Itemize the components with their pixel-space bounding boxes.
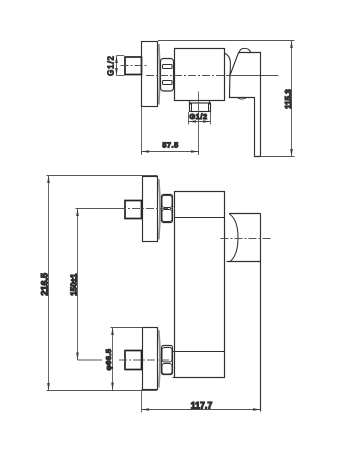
svg-text:G1/2: G1/2 xyxy=(189,112,207,121)
flange rim arc lower (front view) xyxy=(159,330,160,388)
wall flange (top view) xyxy=(142,42,158,107)
handle axis centerline (front view) xyxy=(221,238,272,240)
dimension 57.5 (top view) xyxy=(141,107,143,156)
body parting line lower (front view) xyxy=(173,351,225,353)
handle lever (front view) xyxy=(229,213,261,215)
inlet pipe lower (front view) xyxy=(125,351,142,370)
flange rim arc upper (front view) xyxy=(159,179,160,240)
outlet neck (top view) xyxy=(189,101,191,104)
svg-text:115.3: 115.3 xyxy=(284,89,293,109)
dimension 117.7 (front view) xyxy=(141,390,143,413)
hex nut on flange (top view) xyxy=(161,59,174,92)
hex facet slot lower (top view) xyxy=(163,81,173,85)
body parting line upper (front view) xyxy=(175,217,225,219)
handle hub arc (front view) xyxy=(230,214,239,262)
main axis centerline (top view) xyxy=(146,75,226,77)
svg-text:117.7: 117.7 xyxy=(191,401,213,411)
leader line outlet axis (top view) xyxy=(198,92,200,156)
wall flange lower (front view) xyxy=(143,328,158,390)
cartridge dome arc (top view) xyxy=(225,53,231,75)
svg-text:216.5: 216.5 xyxy=(40,273,50,296)
valve body (top view) xyxy=(175,49,225,101)
svg-text:G1/2: G1/2 xyxy=(107,55,116,76)
outlet hex nut (top view) xyxy=(190,103,211,112)
dimension 150±1 (front view) xyxy=(77,209,79,361)
dimension G1/2 top inlet thread (top view) xyxy=(117,55,125,57)
upper inlet axis (front view) xyxy=(76,208,121,210)
handle underside notch (top view) xyxy=(237,98,246,100)
dimension φ66.5 (front view) xyxy=(111,327,143,329)
handle lever outline (top view) xyxy=(230,53,261,157)
hex nut lower (front view) xyxy=(162,346,173,375)
hex nut upper (front view) xyxy=(162,195,173,223)
inlet pipe centerline (top view) xyxy=(121,65,149,67)
dimension 216.5 (front view) xyxy=(47,175,158,177)
hex facet slot upper (top view) xyxy=(163,65,173,69)
dimension 115.3 (top view) xyxy=(158,40,295,42)
flange rim arc (top view) xyxy=(158,44,161,105)
svg-text:φ66.5: φ66.5 xyxy=(104,349,113,371)
valve body (front view) xyxy=(175,192,225,378)
wall flange upper (front view) xyxy=(143,177,158,242)
lower inlet axis (front view) xyxy=(78,359,103,361)
svg-text:57.5: 57.5 xyxy=(162,141,178,150)
body bottom cap extension (front view) xyxy=(173,377,176,379)
handle hump arc (top view) xyxy=(239,48,251,52)
svg-text:150±1: 150±1 xyxy=(69,273,78,296)
dimension G1/2 outlet thread (top view) xyxy=(188,112,190,125)
inlet pipe (top view) xyxy=(125,57,142,75)
inlet pipe upper (front view) xyxy=(125,201,142,219)
